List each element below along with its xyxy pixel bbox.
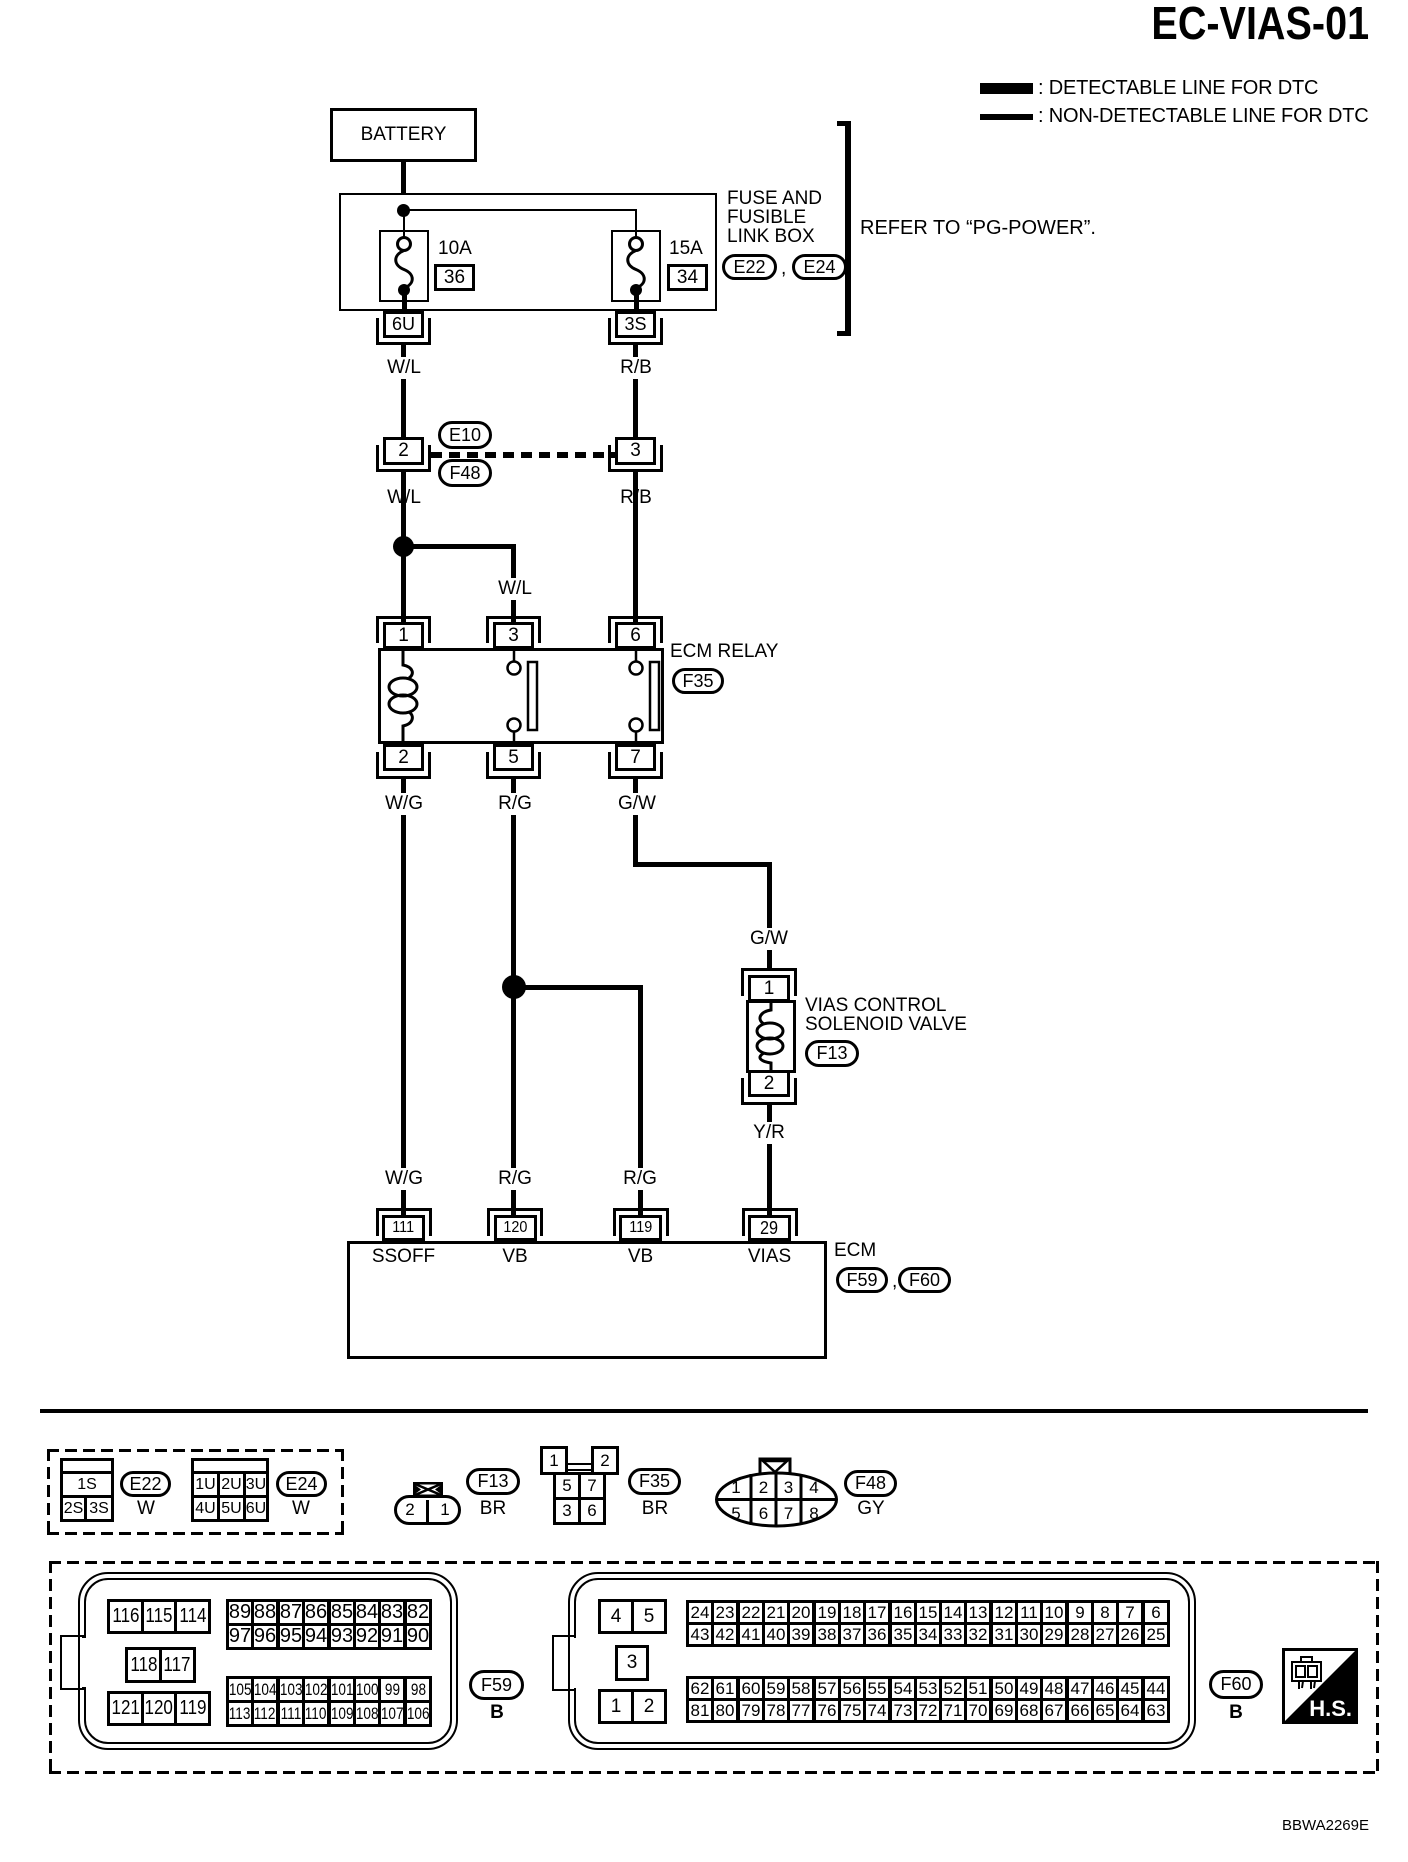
svg-text:8: 8 [809,1504,818,1523]
svg-text:2: 2 [759,1478,768,1497]
svg-text:3: 3 [784,1478,793,1497]
svg-text:4: 4 [809,1478,818,1497]
svg-text:H.S.: H.S. [1309,1696,1352,1721]
svg-text:5: 5 [731,1504,740,1523]
svg-text:1: 1 [731,1478,740,1497]
svg-text:7: 7 [784,1504,793,1523]
svg-text:6: 6 [759,1504,768,1523]
